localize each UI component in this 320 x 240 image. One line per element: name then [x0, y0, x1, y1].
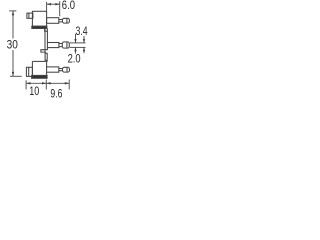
dim 30 bottom tick	[10, 75, 22, 77]
bottom jack flange inner line	[28, 67, 30, 76]
middle pin tip groove	[66, 42, 68, 48]
bottom jack bottom band	[32, 75, 47, 78]
bottom pin tip groove	[66, 68, 68, 72]
top jack base band	[32, 26, 47, 28]
spine right edge upper	[46, 29, 48, 43]
dim 9.6 dimension line	[46, 82, 69, 84]
top pin shaft	[59, 20, 63, 22]
middle pin wide section	[47, 43, 59, 48]
dim 2.0 down arrowhead	[74, 39, 76, 43]
dim 3.4 upper stem	[83, 36, 85, 43]
top jack body	[32, 11, 46, 26]
dim 6.0 dimension line	[47, 3, 60, 5]
dim 30 lower stem	[12, 50, 14, 76]
dim 6.0 right extension line	[59, 1, 61, 16]
dim 2.0 lower stem	[75, 47, 77, 53]
dim 3.4 and 2.0 upper extension line	[70, 42, 86, 44]
top pin tip groove	[66, 19, 68, 24]
dim 3.4 down arrowhead	[83, 39, 85, 43]
dim 2.0 up arrowhead	[74, 47, 76, 51]
spine right edge lower with tab	[41, 48, 48, 62]
bottom jack flange	[26, 67, 32, 76]
top jack base step	[45, 29, 47, 32]
dim 30 upper stem	[12, 11, 14, 39]
svg-text:30: 30	[7, 38, 18, 52]
svg-text:3.4: 3.4	[76, 24, 88, 38]
middle pin shaft	[59, 44, 62, 47]
dim 30 up arrowhead	[12, 11, 14, 15]
bottom jack body	[32, 61, 46, 77]
dim 10 / 9.6 shared extension line	[45, 80, 47, 90]
bottom pin wide section	[47, 67, 59, 72]
dim 9.6 left arrowhead	[46, 82, 50, 84]
dim 30 down arrowhead	[12, 72, 14, 76]
dim 2.0 upper stem	[75, 34, 77, 43]
bottom jack top edge	[32, 60, 47, 62]
dim 6.0 left extension line	[46, 2, 48, 11]
dim 10 right arrowhead	[42, 82, 46, 84]
svg-text:9.6: 9.6	[50, 87, 62, 101]
top jack left flange	[27, 13, 33, 18]
svg-text:10: 10	[29, 84, 39, 98]
dim 3.4 and 2.0 lower extension line	[70, 46, 86, 48]
bottom pin shaft	[59, 69, 63, 71]
bottom pin bulge tip	[63, 67, 70, 72]
top pin wide section	[47, 18, 59, 24]
dim 3.4 up arrowhead	[83, 47, 85, 51]
top jack left flange inner line	[28, 13, 30, 18]
dim 10 left arrowhead	[26, 82, 30, 84]
middle pin bulge tip	[62, 42, 69, 48]
dim 3.4 lower stem	[83, 47, 85, 53]
dim 30 top tick	[9, 10, 16, 12]
top pin bulge tip	[62, 18, 69, 23]
spine foot stub	[45, 52, 47, 60]
dim 10 dimension line	[26, 82, 46, 84]
svg-text:2.0: 2.0	[68, 51, 81, 65]
dim 10 left extension line	[25, 80, 27, 89]
dim 9.6 right extension line	[68, 80, 70, 90]
spine left edge	[44, 29, 46, 53]
dim 6.0 left arrowhead	[47, 3, 51, 5]
dim 6.0 right arrowhead	[55, 3, 59, 5]
dim 9.6 right arrowhead	[65, 82, 69, 84]
svg-text:6.0: 6.0	[62, 0, 75, 12]
